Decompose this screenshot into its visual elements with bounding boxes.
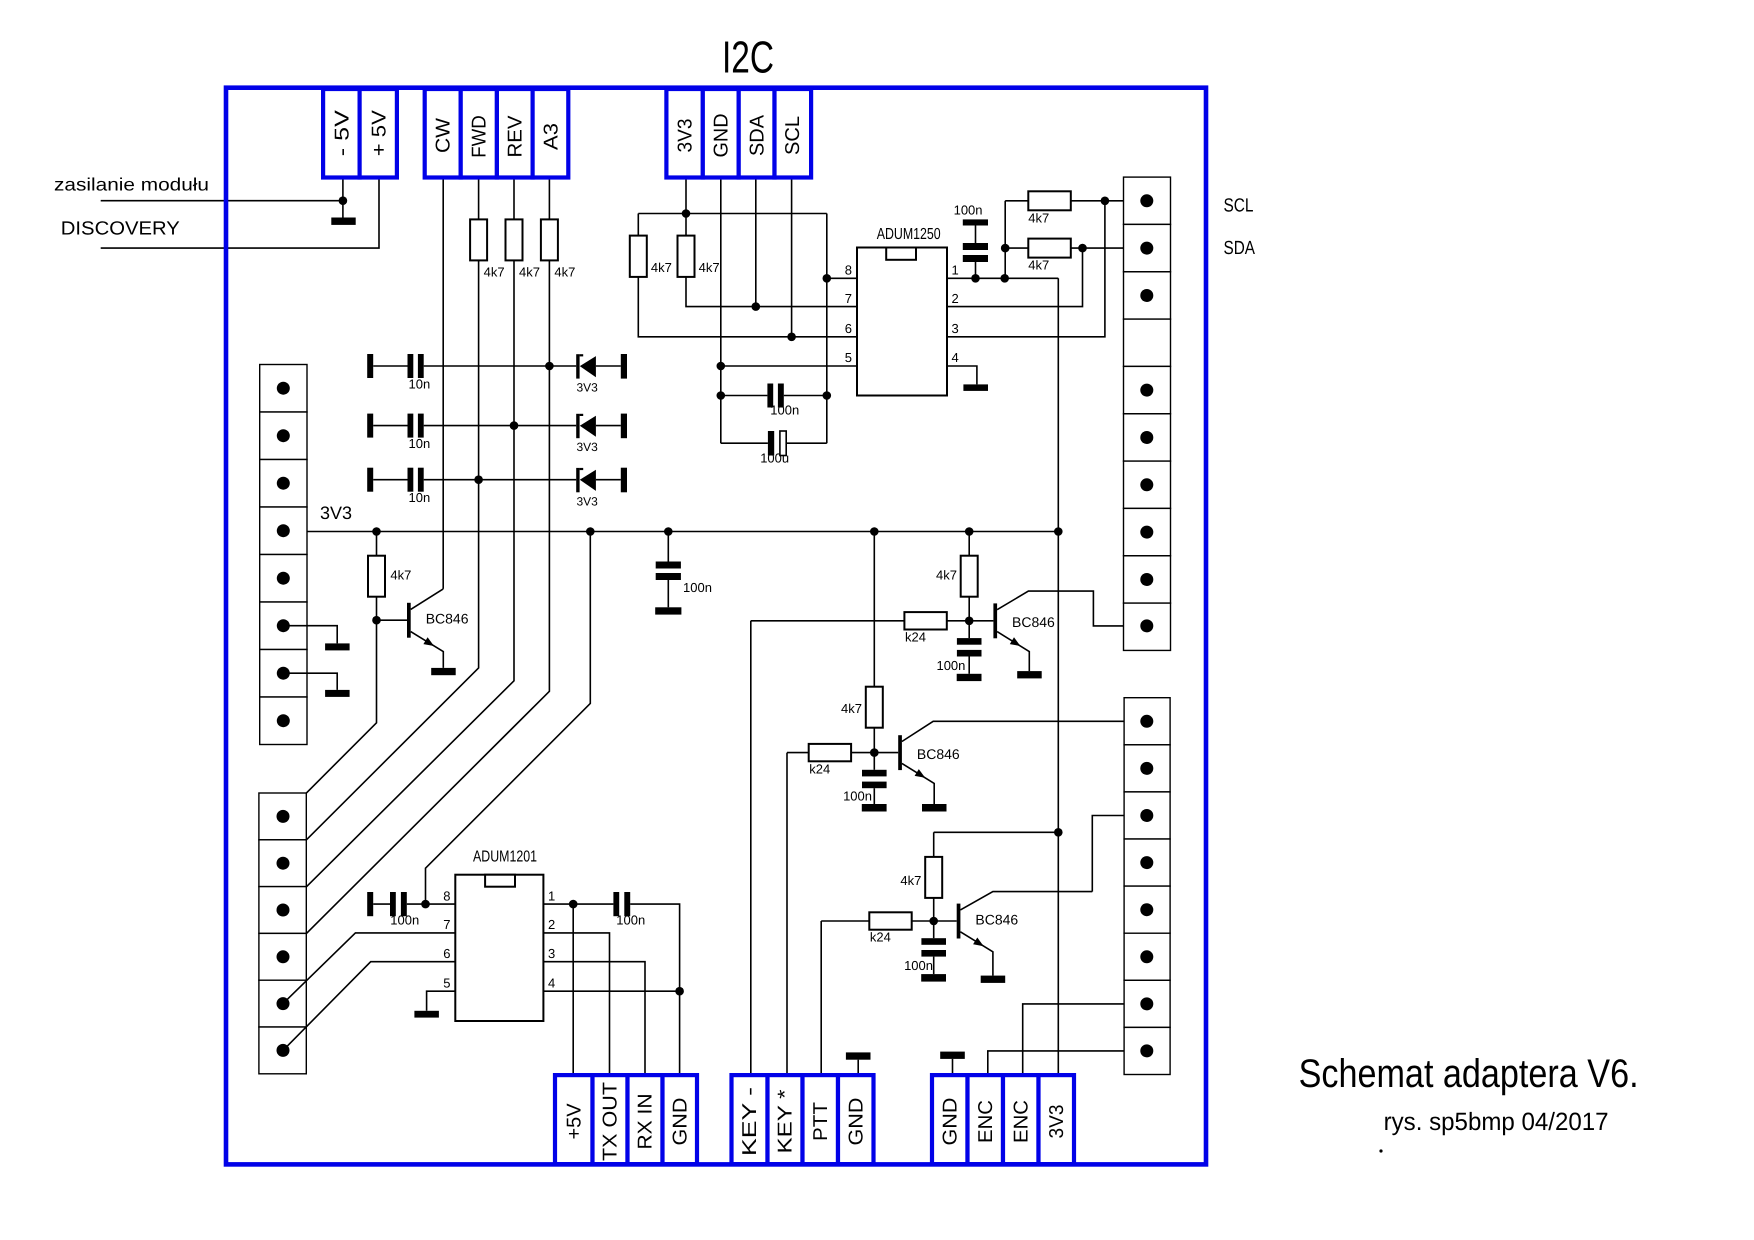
- connector RX IN box: [628, 1075, 663, 1164]
- node pin8 junction: [421, 900, 430, 909]
- svg-text:6: 6: [443, 946, 450, 961]
- svg-text:4k7: 4k7: [1028, 257, 1049, 272]
- capacitor 10n row2 plates: [408, 414, 414, 438]
- svg-text:- 5V: - 5V: [331, 109, 353, 156]
- svg-text:PTT: PTT: [810, 1102, 832, 1141]
- svg-text:SCL: SCL: [1224, 196, 1254, 217]
- svg-text:8: 8: [443, 888, 450, 903]
- zener diode 3V3 row3: [576, 468, 621, 508]
- svg-text:k24: k24: [870, 930, 891, 945]
- wire +5V branch down: [572, 904, 574, 1075]
- wire DISCOVERY line to +5V: [101, 176, 379, 248]
- terminal bar row1 right: [621, 354, 627, 379]
- wire SDA net vertical to pin2: [947, 248, 1083, 307]
- connector TX OUT box: [593, 1075, 628, 1164]
- node row3 FWD junction: [474, 475, 483, 484]
- resistor 4k7 SCL to strip: [1005, 200, 1028, 202]
- svg-text:DISCOVERY: DISCOVERY: [61, 218, 180, 239]
- svg-text:100n: 100n: [904, 958, 933, 973]
- ground bar above ENC GND: [952, 1059, 954, 1075]
- svg-text:100u: 100u: [760, 450, 789, 465]
- node SCL/pin6 junction: [787, 333, 796, 342]
- node SDA/pin7 junction: [752, 302, 761, 311]
- svg-text:100n: 100n: [936, 658, 965, 673]
- wire pin6 row + diagonal to strip: [283, 962, 455, 1051]
- svg-text:2: 2: [952, 291, 959, 306]
- svg-text:ADUM1201: ADUM1201: [473, 849, 537, 866]
- wire rail right corner down: [826, 214, 828, 444]
- svg-text:3V3: 3V3: [674, 119, 696, 153]
- svg-text:3V3: 3V3: [320, 503, 352, 523]
- svg-text:I2C: I2C: [722, 32, 774, 83]
- wire pin8 stub: [827, 277, 857, 279]
- node pin4/GND junction: [675, 987, 684, 996]
- ground bar strip1 pin7: [325, 690, 350, 697]
- wire strip2R pin3 path to Q4 collector: [1092, 816, 1147, 892]
- node GND/pin5 junction: [717, 362, 726, 371]
- svg-text:6: 6: [845, 321, 852, 336]
- svg-text:4k7: 4k7: [841, 701, 862, 716]
- wire KEY- to k24: [751, 620, 905, 622]
- svg-text:SDA: SDA: [1224, 238, 1256, 259]
- wire k24 to Q2 base: [947, 620, 994, 622]
- svg-text:3V3: 3V3: [577, 381, 599, 395]
- wire 3V3 main vertical: [1057, 278, 1059, 1075]
- connector GND box: [703, 89, 739, 178]
- svg-text:A3: A3: [540, 123, 562, 150]
- wire 10n row1 left: [373, 365, 407, 367]
- frame border: [226, 88, 1206, 1165]
- wire PTT vertical: [820, 921, 822, 1075]
- node pin8 junction: [823, 274, 832, 283]
- connector SCL box: [775, 89, 812, 178]
- capacitor 100n at ADUM1201 pin1: [613, 892, 679, 991]
- connector KEY- box: [732, 1075, 768, 1164]
- svg-text:7: 7: [443, 917, 450, 932]
- connector SDA box: [739, 89, 775, 178]
- svg-text:1: 1: [548, 888, 555, 903]
- wire pin4 to ground: [947, 366, 977, 384]
- node pin1 junction: [569, 900, 578, 909]
- wire k24 to Q4 base: [912, 920, 957, 922]
- wire REV vertical upper: [513, 176, 515, 219]
- capacitor 10n row3 plates: [408, 468, 414, 492]
- svg-text:4k7: 4k7: [900, 873, 921, 888]
- resistor 4k7 FWD: [470, 219, 487, 260]
- wire 10n row2 left: [373, 425, 407, 427]
- svg-text:KEY *: KEY *: [775, 1089, 797, 1153]
- connector CW box: [425, 89, 461, 178]
- transistor Q1 BC846: [377, 589, 469, 675]
- node Q1 base junction: [372, 616, 381, 625]
- capacitor 100n at Q4 base: [904, 921, 946, 982]
- svg-text:KEY -: KEY -: [739, 1087, 761, 1156]
- svg-text:5: 5: [443, 975, 450, 990]
- capacitor 10n row3 terminal bar: [367, 468, 373, 492]
- node 100n left junction: [717, 391, 726, 400]
- svg-text:4: 4: [952, 350, 959, 365]
- transistor Q2 BC846: [993, 591, 1146, 678]
- wire REV vertical lower + diagonal to strip: [283, 260, 514, 910]
- node 3V3 row at strip: [372, 527, 381, 536]
- wire row3 to zener: [424, 479, 577, 481]
- svg-text:+ 5V: + 5V: [369, 109, 391, 156]
- svg-text:rys. sp5bmp 04/2017: rys. sp5bmp 04/2017: [1384, 1108, 1609, 1136]
- wire GND branch down: [679, 991, 681, 1075]
- wire zasilanie line to -5V: [101, 200, 343, 202]
- node Q2 base junction: [965, 617, 974, 626]
- left strip 2: [259, 793, 306, 1074]
- connector +5V bottom box: [555, 1075, 593, 1164]
- wire SCL vertical: [791, 176, 793, 337]
- wire PTT to k24: [821, 920, 869, 922]
- svg-text:RX IN: RX IN: [635, 1094, 657, 1150]
- svg-text:100n: 100n: [770, 403, 799, 418]
- svg-text:4k7: 4k7: [484, 265, 505, 280]
- wire row2 to zener: [424, 425, 577, 427]
- resistor k24 Q3: [809, 744, 851, 761]
- capacitor 100n on 3V3 row: [655, 532, 712, 615]
- wire CW vertical: [442, 176, 444, 589]
- svg-text:SCL: SCL: [782, 116, 804, 155]
- svg-text:100n: 100n: [390, 913, 419, 928]
- connector 3V3 bottom box: [1039, 1075, 1075, 1164]
- right strip 1: [1124, 177, 1171, 650]
- svg-text:FWD: FWD: [469, 115, 491, 158]
- wire pin1 row to 3V3 vertical: [947, 277, 1058, 279]
- svg-text:7: 7: [845, 291, 852, 306]
- resistor 4k7 base pullup Q2: [968, 532, 970, 556]
- svg-text:8: 8: [845, 263, 852, 278]
- ground bar under -5V: [331, 218, 355, 225]
- svg-text:10n: 10n: [409, 376, 431, 391]
- capacitor 100n at ADUM1250 pin1: [954, 203, 988, 279]
- svg-text:BC846: BC846: [975, 912, 1018, 928]
- connector +5V box: [360, 89, 397, 178]
- node pin1 cap junction: [971, 274, 980, 283]
- svg-text:CW: CW: [433, 118, 455, 153]
- node on 3V3 vertical: [1054, 828, 1063, 837]
- connector ENC2 box: [1003, 1075, 1039, 1164]
- resistor 4k7 base pullup Q4: [933, 832, 935, 857]
- svg-text:GND: GND: [669, 1098, 691, 1146]
- svg-text:100n: 100n: [683, 580, 712, 595]
- svg-text:GND: GND: [845, 1098, 867, 1146]
- wire pin5 to ground: [427, 991, 456, 1011]
- wire pin7 row + diagonal to strip: [283, 933, 455, 1004]
- wire SDA vertical: [755, 176, 757, 307]
- node 100n right junction: [823, 391, 832, 400]
- node pin1 pullup junction: [1000, 274, 1009, 283]
- wire strip1 pin6 to ground: [283, 626, 337, 644]
- connector ENC1 box: [968, 1075, 1004, 1164]
- resistor 4k7 A3: [541, 219, 558, 260]
- wire pullup pair left vertical: [1004, 201, 1006, 278]
- svg-text:100n: 100n: [616, 913, 645, 928]
- wire 4k7 top right to strip: [1071, 200, 1147, 202]
- capacitor 100n at ADUM1201 pin8: [367, 892, 455, 928]
- wire pin4 row: [543, 990, 679, 992]
- capacitor 100n at Q3 base: [843, 753, 887, 812]
- connector A3 box: [533, 89, 569, 178]
- svg-text:TX OUT: TX OUT: [600, 1082, 622, 1161]
- connector KEY* box: [768, 1075, 803, 1164]
- wire top rail y213: [638, 213, 827, 215]
- terminal bar row2 right: [621, 414, 627, 439]
- ground bar ADUM1250 pin4: [963, 384, 988, 391]
- resistor k24 Q4: [869, 912, 911, 929]
- svg-text:GND: GND: [711, 114, 733, 158]
- connector GND bottom box 3: [932, 1075, 968, 1164]
- wire A3 vertical upper: [548, 176, 550, 219]
- ground bar ADUM1201 pin5: [414, 1011, 439, 1018]
- node -5V junction: [339, 196, 348, 205]
- wire A3 vertical lower + diagonal to strip: [283, 260, 549, 956]
- resistor 4k7 base pullup Q3: [873, 532, 875, 687]
- svg-text:3: 3: [548, 946, 555, 961]
- wire KEY* vertical: [786, 753, 788, 1076]
- svg-text:4: 4: [548, 975, 555, 990]
- wire pin1 row: [543, 903, 613, 905]
- node pullup left mid junction: [1001, 244, 1010, 253]
- node SDA net junction: [1078, 244, 1087, 253]
- ground bar strip1 pin6: [325, 643, 350, 650]
- resistor 4k7 B (SDA pullup): [685, 214, 687, 236]
- svg-text:zasilanie modułu: zasilanie modułu: [54, 175, 209, 195]
- svg-text:3V3: 3V3: [577, 440, 599, 454]
- wire GND vertical: [720, 176, 722, 443]
- svg-text:ADUM1250: ADUM1250: [877, 226, 941, 243]
- wire Q4 pullup top row: [934, 831, 1059, 833]
- wire 4k7 bottom right to strip: [1071, 247, 1147, 249]
- wire branch to ADUM1201 pin8 (diagonal): [426, 532, 591, 905]
- wire -5V pin down: [342, 176, 344, 218]
- svg-text:4k7: 4k7: [390, 568, 411, 583]
- wire pin3 row to RX IN: [543, 962, 645, 1075]
- capacitor 10n row1 plates: [408, 354, 414, 378]
- svg-text:ENC: ENC: [975, 1100, 997, 1143]
- transistor Q3 BC846: [898, 721, 1147, 811]
- wire KEY* to k24: [787, 752, 809, 754]
- capacitor 100n at Q2 base: [936, 621, 981, 681]
- node Q4 base junction: [929, 917, 938, 926]
- wire SCL net vertical to pin3: [947, 201, 1105, 337]
- svg-text:4k7: 4k7: [936, 568, 957, 583]
- svg-text:100n: 100n: [843, 789, 872, 804]
- left strip 1: [260, 365, 307, 745]
- svg-text:3: 3: [952, 321, 959, 336]
- wire 3V3 net row: [283, 531, 1058, 533]
- svg-text:1: 1: [952, 263, 959, 278]
- svg-text:BC846: BC846: [426, 611, 469, 627]
- svg-text:4k7: 4k7: [554, 265, 575, 280]
- zener diode 3V3 row1: [576, 354, 621, 394]
- svg-text:k24: k24: [809, 761, 830, 776]
- resistor k24 Q2: [904, 612, 946, 629]
- connector GND bottom box 1: [663, 1075, 698, 1164]
- connector PTT box: [803, 1075, 839, 1164]
- resistor 4k7 A (SCL pullup): [630, 236, 647, 277]
- svg-text:ENC: ENC: [1010, 1100, 1032, 1143]
- wire 4k7 A down and right to pin6: [638, 277, 857, 337]
- connector FWD box: [461, 89, 497, 178]
- wire pin5 row: [721, 365, 857, 367]
- svg-text:100n: 100n: [954, 203, 983, 218]
- svg-text:3V3: 3V3: [1046, 1105, 1068, 1139]
- wire k24 to Q3 base: [851, 752, 898, 754]
- svg-text:REV: REV: [505, 115, 527, 158]
- svg-text:SDA: SDA: [746, 114, 768, 156]
- svg-text:4k7: 4k7: [651, 260, 672, 275]
- wire strip1 pin7 to ground: [283, 673, 337, 690]
- right strip 2: [1124, 698, 1170, 1075]
- zener diode 3V3 row2: [576, 414, 621, 454]
- connector GND bottom box 2: [838, 1075, 874, 1164]
- node row2 REV junction: [510, 421, 519, 430]
- resistor 4k7 REV: [506, 219, 523, 260]
- svg-text:Schemat adaptera V6.: Schemat adaptera V6.: [1299, 1052, 1639, 1096]
- capacitor 10n row1 terminal bar: [367, 354, 373, 378]
- wire ENC1 to strip2R pin8: [988, 1051, 1147, 1075]
- wire row1 to zener: [424, 365, 577, 367]
- wire rail corner down to 4k7 A: [637, 214, 639, 236]
- svg-text:4k7: 4k7: [519, 265, 540, 280]
- IC ADUM1250: [857, 248, 947, 396]
- svg-text:5: 5: [845, 350, 852, 365]
- svg-text:BC846: BC846: [917, 746, 960, 762]
- svg-text:+5V: +5V: [563, 1103, 585, 1140]
- node 3V3/rail junction: [682, 209, 691, 218]
- wire ENC2 to strip2R pin7: [1023, 1004, 1147, 1075]
- resistor 4k7 SDA to strip: [1005, 247, 1028, 249]
- svg-text:4k7: 4k7: [1028, 210, 1049, 225]
- node row1 A3 junction: [545, 362, 554, 371]
- wire pin2 row to TX OUT: [543, 933, 609, 1075]
- svg-text:10n: 10n: [409, 490, 431, 505]
- wire FWD vertical lower + diagonal to strip: [283, 260, 479, 863]
- wire 10n row3 left: [373, 479, 407, 481]
- svg-text:k24: k24: [905, 630, 926, 645]
- capacitor 100n decoupling row: [721, 395, 768, 397]
- transistor Q4 BC846: [957, 892, 1093, 983]
- connector 3V3 box: [666, 89, 702, 178]
- svg-text:BC846: BC846: [1012, 614, 1055, 630]
- svg-text:4k7: 4k7: [699, 260, 720, 275]
- svg-text:2: 2: [548, 917, 555, 932]
- svg-text:10n: 10n: [409, 436, 431, 451]
- resistor 4k7 base pullup Q1: [376, 532, 378, 556]
- capacitor 100u electrolytic row: [721, 442, 768, 444]
- wire KEY- vertical: [750, 621, 752, 1075]
- svg-text:3V3: 3V3: [577, 494, 599, 508]
- node SCL net junction: [1101, 197, 1110, 206]
- stray period: [1379, 1149, 1382, 1152]
- connector REV box: [497, 89, 533, 178]
- svg-text:GND: GND: [939, 1098, 961, 1146]
- wire FWD vertical upper: [478, 176, 480, 219]
- connector -5V box: [323, 89, 360, 178]
- terminal bar row3 right: [621, 468, 627, 493]
- IC ADUM1201: [455, 875, 543, 1021]
- node Q3 base junction: [870, 748, 879, 757]
- wire Q1 base node down diagonal to strip: [283, 620, 377, 816]
- ground bar above KEY GND: [857, 1060, 859, 1075]
- wire 4k7 B down and right to pin7: [686, 277, 857, 307]
- wire 3V3 pin down to node: [685, 176, 687, 214]
- capacitor 10n row2 terminal bar: [367, 414, 373, 438]
